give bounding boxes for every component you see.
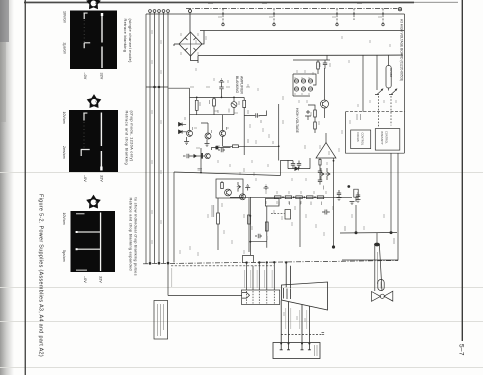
node: test point left <box>355 231 358 234</box>
switch S1b <box>389 89 397 95</box>
diode CR4 mark <box>194 48 197 51</box>
photo 1 trace: 32V line <box>101 13 102 68</box>
svg-text:5μs/cm: 5μs/cm <box>62 250 66 262</box>
diode CR5 <box>231 102 237 108</box>
connector box: A2 plug <box>241 290 279 304</box>
wire: divider top <box>308 105 315 108</box>
wire: Q3 base <box>201 123 208 133</box>
transistor Q5 <box>205 153 210 158</box>
wire: U1 minus leg <box>333 158 335 197</box>
ground: Q1 emitter <box>184 137 189 145</box>
capacitor C13 <box>255 234 262 238</box>
ground: rail gnd <box>264 185 269 191</box>
node: socket joints <box>280 343 282 345</box>
label: hv refs <box>305 112 329 155</box>
resistor R9 vertical <box>217 213 220 250</box>
svg-text:3: 3 <box>94 2 98 4</box>
anode contact ring <box>380 294 384 298</box>
wire: bus line 3 <box>158 12 160 263</box>
wire: CRT pin 3 <box>301 305 304 350</box>
resistor R3 <box>243 97 246 107</box>
wire: A2 link y295 <box>168 295 242 297</box>
resistor R16 <box>354 189 358 202</box>
wire: bus line 2 <box>154 12 156 263</box>
wire: tap stub x223 <box>222 9 224 24</box>
resistor R20 <box>275 196 282 199</box>
label: bridge refs <box>181 33 198 55</box>
ground: R16 <box>350 202 355 205</box>
faint paper fold lines <box>0 173 483 368</box>
wire: CRT pin 1 <box>280 301 283 350</box>
node: x250 joints <box>250 215 252 217</box>
label: lead name <box>377 252 379 284</box>
capacitor C14 <box>318 180 322 185</box>
top scan shadow line <box>24 2 414 4</box>
capacitor C5 <box>291 161 295 169</box>
module box: INTENSITY control <box>375 129 400 151</box>
photo 2 trace: 32V line <box>101 113 102 171</box>
wire: Q10 collector <box>324 68 326 100</box>
capacitor C2 <box>256 113 258 117</box>
svg-text:32V: 32V <box>100 73 104 80</box>
capacitor C4 <box>183 154 193 158</box>
diode CR15 <box>308 87 312 91</box>
label: CRT pin functions <box>286 308 307 329</box>
wire: mid drop x250 <box>249 197 251 255</box>
transistor Q1 <box>187 130 193 136</box>
right page rule <box>462 0 463 341</box>
svg-text:–0V: –0V <box>83 73 87 80</box>
CRT V1 <box>273 261 328 358</box>
ground: C1 return <box>219 79 224 87</box>
wire: section feed <box>362 55 364 112</box>
photo 3 trace: 32V line <box>100 213 101 272</box>
diode CR1 mark <box>185 38 188 41</box>
label: A2 <box>322 333 325 335</box>
svg-text:5: 5 <box>95 101 99 103</box>
resistor R10 <box>317 60 320 74</box>
wire: A2 boundary dashed <box>281 334 321 336</box>
wire: drop x333 <box>333 197 335 247</box>
transistor Q10 <box>321 100 329 108</box>
photo 1 trace: 0V marks <box>84 13 85 20</box>
ground: bias gnd <box>245 185 250 191</box>
label: test rail <box>345 226 394 244</box>
node: leg dot <box>333 160 335 162</box>
wire: U1 output <box>325 133 327 143</box>
wire: box drop <box>217 198 219 213</box>
wire: x174 drop <box>173 172 175 263</box>
transistor Q2 <box>220 130 226 136</box>
wire: harness lead 2 <box>252 266 254 290</box>
diode CR13 <box>294 87 298 91</box>
wire: Q10 emitter <box>324 108 326 118</box>
wire: A2 drop x168 <box>167 263 169 295</box>
connector: EHT plug <box>374 243 379 246</box>
wire: EHT lead pair <box>375 245 382 291</box>
wire: harness lead 3 <box>258 263 260 291</box>
scope photo 1 frame <box>70 11 117 70</box>
bridge diamond <box>179 32 202 56</box>
wire: Q5 drop <box>200 148 202 173</box>
label: top bus refs <box>208 4 382 18</box>
resistor R22 <box>296 196 303 199</box>
wire: chassis dashed return <box>171 265 274 267</box>
transistor Q3 <box>205 133 211 139</box>
wire: A3 board right edge <box>404 14 406 153</box>
capacitor C11 <box>305 110 311 120</box>
svg-text:10V/cm: 10V/cm <box>62 11 66 23</box>
pin P1-5 <box>167 10 170 13</box>
resistor R11 <box>314 108 317 120</box>
svg-text:AMPLIFIER: AMPLIFIER <box>240 76 244 94</box>
svg-text:HV ADJ: HV ADJ <box>389 68 393 78</box>
node: grid feed dot <box>285 261 287 263</box>
post accelerator lead <box>372 233 393 301</box>
wire: CRT pin 2 <box>287 302 290 350</box>
control section outline <box>346 112 405 154</box>
wire: board lower right edge <box>342 154 398 261</box>
resistor R4 <box>233 145 245 148</box>
wire: plug stubs dashed <box>247 291 275 304</box>
pin: stub terminal x223 <box>222 23 224 25</box>
pin: bridge input <box>189 10 192 13</box>
bridge rectifier CR1-CR4 <box>174 10 204 64</box>
wire: switch feed left <box>376 55 378 90</box>
module box: interlock <box>285 210 291 220</box>
label: socket text <box>315 345 318 356</box>
diode CR7 <box>326 168 331 180</box>
wire: CR links <box>182 124 186 132</box>
svg-text:–0V: –0V <box>83 276 87 283</box>
resistor R2 <box>213 97 216 114</box>
resistor R24 <box>317 196 324 199</box>
diode CR18 <box>179 130 183 134</box>
wire: ladder right <box>293 74 316 85</box>
wire: bridge feed <box>189 13 191 33</box>
input harness bus <box>146 10 169 265</box>
wire: R16 drop <box>355 205 357 232</box>
diode CR17 <box>179 123 183 127</box>
wire: chassis dash-dot top bus <box>186 8 398 10</box>
ground: C9 <box>356 200 361 203</box>
wire: switch drop dashed right <box>390 96 392 126</box>
wire: hv feed drop <box>278 104 280 146</box>
photo 1 star marker 3 <box>86 0 101 9</box>
resistor R15 <box>265 222 268 231</box>
label: chain values <box>279 202 322 206</box>
interconnect to A2 <box>154 261 280 339</box>
anode bowtie right <box>384 291 393 301</box>
svg-text:32V: 32V <box>98 276 102 283</box>
photo 2 trace: 0V marks <box>83 113 84 121</box>
wire: ladder left <box>292 74 294 96</box>
resistor R1 <box>195 97 198 114</box>
capacitor C9 <box>356 192 360 200</box>
diode CR14 <box>301 87 305 91</box>
wire: bridge output drop <box>197 56 199 64</box>
wire: bridge right leg <box>202 31 204 45</box>
node: rail junction <box>200 172 202 174</box>
node: rail joints <box>196 97 198 99</box>
resistor R13 <box>319 158 321 171</box>
wire: hv link <box>244 146 279 160</box>
label: gate refs <box>196 146 333 240</box>
wire: 32V branch <box>244 111 266 116</box>
capacitor C15 <box>218 148 225 152</box>
scope photo 2 frame <box>69 110 118 172</box>
EHT cap cylinder <box>378 280 384 291</box>
wire: drop x300 <box>299 197 301 247</box>
wire: lower links <box>243 242 267 263</box>
svg-text:FOCUS: FOCUS <box>356 133 360 142</box>
capacitor C6 <box>297 161 301 169</box>
resistor R12 <box>314 120 317 133</box>
module box: gate driver <box>216 179 243 198</box>
transistor Q7 <box>240 194 246 200</box>
wire: tap y87 <box>146 86 168 88</box>
svg-text:(single channel mode): (single channel mode) <box>128 19 133 64</box>
wire: bus line 4 <box>163 12 165 263</box>
wire: output leg <box>243 108 245 156</box>
resistor R14 <box>248 215 251 224</box>
svg-text:32V: 32V <box>99 175 103 182</box>
label: rail tag <box>198 169 203 171</box>
wire: harness lead 1 <box>246 263 248 290</box>
wire: +V top bus <box>146 13 405 15</box>
svg-text:BLANKING: BLANKING <box>235 76 239 94</box>
wire: gate rail riser <box>281 161 294 176</box>
wire: Q2 emitter rail <box>223 136 233 146</box>
svg-text:2ms/cm: 2ms/cm <box>62 146 66 159</box>
node: junction blob <box>201 153 203 159</box>
wire: hv test rail <box>340 232 397 235</box>
node: hv feed dot <box>278 145 280 147</box>
wire: Q1 drop <box>189 97 191 130</box>
wire: ladder top feed <box>293 59 330 61</box>
pin P1-1 <box>149 10 152 13</box>
wire: grid feed <box>286 263 290 289</box>
label: blanking refs <box>190 87 283 128</box>
wire: bus y55 <box>198 54 403 56</box>
diode CR16 <box>295 167 299 171</box>
svg-text:4: 4 <box>94 201 98 203</box>
svg-text:A3 HIGH VOLTAGE BOARD (01220-6: A3 HIGH VOLTAGE BOARD (01220-66503) <box>399 19 403 81</box>
pin: stub terminal x337 <box>336 23 338 25</box>
wire: Q2 base drop <box>222 115 224 131</box>
photo 3 trace: chop pulses <box>76 231 101 232</box>
wire: collector rail <box>190 96 245 98</box>
pin P1-3 <box>158 10 161 13</box>
wire: bias bottom link <box>250 241 266 243</box>
node: divider junctions <box>282 196 284 198</box>
resistor R8 <box>221 181 224 189</box>
wire: harness lead 4 <box>266 262 268 290</box>
label: driver text <box>212 205 214 217</box>
svg-text:INTENSITY: INTENSITY <box>380 131 384 145</box>
capacitor C1 <box>219 87 223 97</box>
svg-text:2μs/cm: 2μs/cm <box>62 43 66 55</box>
node: tap junctions <box>154 86 156 88</box>
ground: C8 <box>337 198 342 201</box>
high voltage rectifier ladder <box>288 55 350 197</box>
transistor Q6 <box>225 189 232 196</box>
wire: ladder bus stub <box>326 55 328 60</box>
wire: ladder bottom <box>293 95 310 97</box>
misc component labels <box>181 4 382 241</box>
svg-text:Figure 5-2. Power Supplies (As: Figure 5-2. Power Supplies (Assemblies A… <box>38 194 44 357</box>
wire: chassis dash-dot lower <box>143 261 398 264</box>
svg-text:to show individual chop blanki: to show individual chop blanking pulses <box>134 198 139 276</box>
resistor R21 <box>285 196 292 199</box>
pin: stub terminal x383 <box>382 23 384 25</box>
capacitor C10 <box>323 60 327 69</box>
svg-text:HIGH VOLTAGE: HIGH VOLTAGE <box>295 108 299 134</box>
label: section note <box>357 114 361 120</box>
diode CR2 mark <box>194 38 197 41</box>
switch S1a <box>375 89 383 95</box>
photo 2 star marker 5 <box>87 94 102 108</box>
note box <box>154 301 168 340</box>
wire: tap stub x354 <box>353 9 355 21</box>
node: chassis terminal <box>398 8 401 11</box>
wire: tap stub x383 <box>382 9 384 24</box>
photo 3 star marker 4 <box>86 195 101 209</box>
CRT gun electrodes <box>284 288 291 299</box>
svg-text:(chop mode, 1220A only): (chop mode, 1220A only) <box>130 111 135 162</box>
diode CR3 mark <box>185 48 188 51</box>
svg-text:10V/cm: 10V/cm <box>62 112 66 124</box>
module box: FOCUS control <box>351 130 371 149</box>
diode CR10 <box>294 79 298 83</box>
svg-text:CONTROL: CONTROL <box>385 131 389 144</box>
top bus taps <box>222 9 384 26</box>
intensity-focus control section <box>346 19 405 153</box>
wire: stage feed <box>169 88 190 97</box>
CRT envelope <box>282 282 328 310</box>
sweep gating stage <box>174 146 397 262</box>
capacitor C7 <box>322 210 330 215</box>
ground: Q3 emitter <box>205 140 210 147</box>
wire: bus y30 <box>200 30 404 32</box>
label: mid refs <box>266 191 326 204</box>
wire: pot feed <box>388 55 390 91</box>
label: harness wire names <box>172 268 272 288</box>
node: test point right <box>390 231 393 234</box>
svg-text:10V/cm: 10V/cm <box>62 213 66 225</box>
left page rule <box>25 0 26 375</box>
diode CR12 <box>308 79 312 83</box>
pin: plug lug <box>242 293 250 299</box>
label: cap <box>380 282 382 289</box>
wire: x249 drop <box>248 198 250 252</box>
wire: Q5 collector riser <box>212 148 231 151</box>
wire: divider rail y197 <box>230 196 352 198</box>
wire: left return drop <box>145 14 147 264</box>
capacitor C8 <box>337 190 341 198</box>
wire: EHT stub <box>376 233 378 243</box>
wire: harness lead 5 <box>273 262 275 290</box>
diode CR11 <box>301 79 305 83</box>
label: component refs <box>185 100 273 144</box>
label: ladder refs <box>295 63 330 95</box>
svg-text:Retrace blanking: Retrace blanking <box>123 19 128 53</box>
label: note text <box>158 304 164 336</box>
label: C14 value <box>323 186 325 190</box>
CRT socket connector XV1 <box>273 343 320 359</box>
svg-text:Retrace and chop blanking: Retrace and chop blanking <box>125 111 130 166</box>
wire: bias drop <box>266 206 268 242</box>
node: C8 junction <box>347 185 350 188</box>
wire: U1 input feed <box>288 158 310 169</box>
wire: gate rail y172 <box>174 172 281 176</box>
module box: bias network <box>265 199 279 207</box>
wire: intensity output drop <box>390 154 392 232</box>
pin: stub terminal x274 <box>273 23 275 25</box>
node: bus/chassis junctions <box>149 262 151 264</box>
wire: CRT pin 4 <box>308 306 311 350</box>
wire: switch drop dashed left <box>378 96 380 127</box>
wire: tap stub x337 <box>336 9 338 24</box>
label: scattered reference designators <box>152 30 396 322</box>
wire: base link y156 <box>193 155 205 157</box>
resistor R7 <box>216 146 218 149</box>
svg-text:CONTROL: CONTROL <box>361 133 365 146</box>
svg-text:5–7: 5–7 <box>458 344 465 356</box>
wire: base rail <box>190 114 235 116</box>
svg-text:Retrace and chop blanking expa: Retrace and chop blanking expanded <box>129 198 134 271</box>
anode bowtie left <box>372 292 381 302</box>
wire: relay dashed <box>271 213 285 215</box>
node: x333 chassis dot <box>332 245 335 248</box>
blanking amplifier stage <box>169 76 280 161</box>
diode CR9 <box>194 155 197 158</box>
svg-text:–0V: –0V <box>83 175 87 182</box>
wire: bridge left to bus <box>174 43 179 45</box>
diode CR8 <box>237 182 241 192</box>
wire: tap stub x274 <box>273 9 275 24</box>
pin P1-2 <box>153 10 156 13</box>
left scan shadow band <box>0 0 14 375</box>
wire: bus line 5 <box>167 12 169 263</box>
wire: bus line 1 <box>149 12 151 263</box>
resistor R23 <box>307 196 314 199</box>
potentiometer box: HIGH VOLTAGE ADJ <box>386 66 391 89</box>
capacitor C12 <box>318 171 322 180</box>
wire: bridge bottom leg <box>191 56 199 61</box>
node: chassis dots <box>245 261 247 263</box>
diode CR6 <box>320 168 325 180</box>
op-amp U1 <box>316 143 336 159</box>
pin P1-4 <box>162 10 165 13</box>
scope photo 3 frame <box>71 211 116 272</box>
